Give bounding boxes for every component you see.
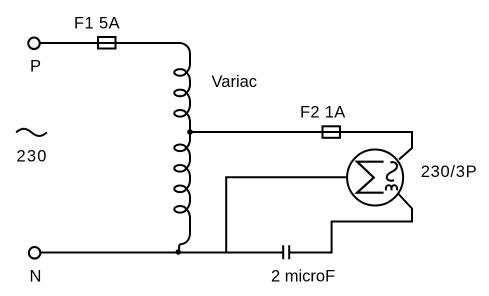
variac coil L1 — [174, 54, 190, 252]
wire bottom N to capacitor — [35, 252, 283, 254]
fuse F1 — [98, 37, 116, 49]
wire motor left to riser — [226, 177, 350, 252]
wire motor bottom to capacitor — [290, 194, 412, 253]
svg-text:N: N — [30, 267, 42, 285]
node: coil bottom junction — [176, 249, 181, 254]
svg-text:Variac: Variac — [212, 73, 258, 91]
svg-text:2 microF: 2 microF — [271, 267, 335, 285]
svg-text:F2 1A: F2 1A — [300, 104, 346, 122]
wire P to coil top — [34, 43, 190, 54]
motor rotated tilde glyph — [387, 162, 397, 181]
wire tap to motor — [190, 132, 412, 160]
terminal P — [28, 38, 40, 50]
svg-text:230/3P: 230/3P — [421, 163, 478, 181]
svg-text:230: 230 — [17, 148, 48, 166]
svg-text:P: P — [30, 57, 41, 75]
fuse F2 — [323, 126, 341, 138]
node: coil tap junction — [187, 129, 193, 135]
terminal N — [29, 247, 41, 258]
AC source symbol — [16, 129, 47, 136]
motor M1 circle — [347, 150, 403, 206]
motor rotated 3 glyph — [386, 185, 397, 190]
motor sigma glyph — [357, 162, 384, 193]
svg-text:F1 5A: F1 5A — [74, 14, 120, 32]
capacitor C1 plates — [283, 245, 289, 259]
